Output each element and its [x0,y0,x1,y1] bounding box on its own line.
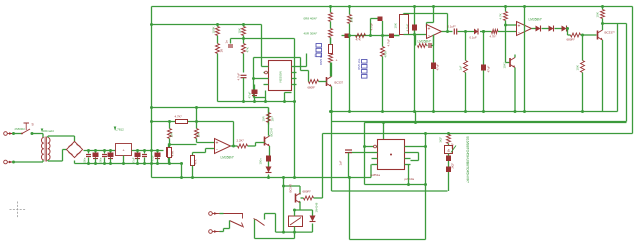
svg-text:1uF: 1uF [339,160,343,165]
wire y38 branch [231,38,295,40]
transistor Q1 BC337 [326,77,328,86]
wire box to cap [448,154,450,156]
svg-text:4.7K: 4.7K [171,151,175,157]
svg-text:47uF: 47uF [248,91,252,98]
wire Q2 collector up [602,24,604,31]
node after S1 [31,132,34,135]
node y122 x415 [414,121,417,124]
node x602 top [601,5,604,8]
svg-text:1K: 1K [220,49,224,53]
wire Q1 collector [331,63,333,77]
transformer TR1 core [44,137,46,162]
node C17 [109,149,112,152]
node x382 rail [381,110,384,113]
node x283 y185 [282,185,285,188]
capacitor C15 electrolytic [93,153,99,158]
IC3 left pins [372,146,378,148]
capacitor C1 100n [230,39,232,44]
diode D2 [549,26,554,32]
node R1 top [216,23,219,26]
node x349 top [348,5,351,8]
wire y121 left rail [152,121,234,123]
wire x403 pot top [403,14,405,15]
origin crosshair [10,202,26,218]
wire collector branch [284,185,301,187]
resistor R19 box right of caps [167,148,171,157]
svg-text:3K3*: 3K3* [439,137,443,143]
capacitor C16 [104,151,106,154]
node C16 top [103,149,106,152]
capacitor C18 electrolytic [135,153,141,158]
wire x382 lower with resistor [382,36,384,47]
wire x524 vertical [524,7,526,112]
node y101 x284 [283,100,286,103]
wire y238 bottom [255,238,295,240]
node x414 rail [413,110,416,113]
svg-text:10R: 10R [262,116,266,121]
voltage regulator IC2 7812 box [116,144,132,156]
node x330 top [329,5,332,8]
wire right outer vertical [632,7,634,134]
node y107 x151 [150,106,153,109]
resistor R24 out [238,144,248,148]
svg-text:L7812: L7812 [116,128,125,132]
transistor Q2 BC337 [597,31,599,40]
wire x349 lower [349,36,351,112]
node x483 [482,30,485,33]
resistor R22 box [168,148,172,158]
svg-text:200ma1h: 200ma1h [43,129,55,133]
wire Q4 emitter [269,146,271,156]
resistor R6 40R 30W [329,29,333,38]
node x151 supply [150,149,153,152]
wire secondary bottom to bridge [47,160,49,161]
node x253 pin3 [252,77,255,80]
svg-text:1N4148: 1N4148 [315,202,319,212]
wire Q3 collector stub [514,55,516,58]
wire x349 to y35 [349,24,351,36]
wire y239 bottom detour [350,239,426,241]
diode D1 [536,26,541,32]
wire C24 to C25 [448,161,450,167]
wire y23 jog [602,23,627,25]
node out1 [446,30,449,33]
svg-text:4.7uF: 4.7uF [370,23,374,31]
node y121 x196 [195,120,198,123]
wire y34 input line [404,34,427,36]
node x294 y231 [293,231,296,234]
node C15 top [94,149,97,152]
svg-text:S: S [32,123,34,127]
wire R23 to -in [196,139,198,143]
wire x196 drop [196,108,198,129]
wire U2B out [532,28,536,30]
wire x582 pulldown [582,35,584,61]
wire x370 up [370,19,372,36]
node C14 top [87,149,90,152]
node base x582 [581,34,584,37]
capacitor C23 [345,149,352,151]
svg-text:pc851a: pc851a [371,173,381,177]
op-amp U2B LM358N [517,22,532,36]
wire U1 right wrap upper [297,66,307,68]
wire y111 mid rail [332,111,618,113]
svg-text:4.7uF: 4.7uF [237,73,241,81]
wire x483 lower [483,32,485,65]
wire y238 riser [294,232,296,238]
wire primary top entry [42,134,44,138]
svg-text:47uF: 47uF [151,155,155,162]
wire y190 lower branch [332,190,448,192]
node x283 y231 [282,231,285,234]
resistor R7 box [329,45,333,54]
wire C22 to D4 [268,162,270,167]
svg-text:10K*: 10K* [503,62,507,69]
wire x284 wrap [285,92,292,94]
svg-text:10K: 10K [394,23,398,28]
svg-text:B16/B8TO45HU/B8TO45HVR*: B16/B8TO45HU/B8TO45HVR* [466,137,470,184]
svg-text:47uF: 47uF [436,63,440,70]
wire Q4 base jog [248,145,256,147]
svg-text:4.7K*: 4.7K* [175,115,183,119]
node x383 y122 [382,121,385,124]
IC3 optocoupler body [378,140,405,170]
wire y122 lower rail [365,122,627,124]
wire x294 lower [294,102,296,178]
svg-text:47K: 47K [356,38,361,42]
node x169 mid [168,143,171,146]
connector X2 pin1 [209,212,213,216]
wire x408 pin drop [408,165,410,185]
svg-text:10K: 10K [596,12,600,17]
wire R21 to node [169,139,171,148]
node y38/x243 [242,37,245,40]
svg-text:680R*: 680R* [308,86,317,90]
wire R26 to Q4 [268,123,270,136]
wire opamp out [442,31,453,33]
wire x330 from top rail [330,7,332,13]
wire x169 drop [169,122,171,129]
wire +in down [193,152,206,154]
wire X2 pin1 stub [220,213,224,215]
capacitor C2 4.7uF [241,74,247,76]
capacitor C8 on x414 [412,25,417,31]
svg-text:2.2K*: 2.2K* [237,139,245,143]
svg-text:NE555N: NE555N [279,71,283,82]
resistor R3 [243,25,245,27]
node y121 x169 [168,120,171,123]
U1 right pin stubs [292,66,297,68]
resistor R21 10K [168,129,172,139]
node x483 top [482,30,485,33]
potentiometer P1 box [400,15,409,35]
capacitor C9 on x433 lower [433,35,435,112]
svg-text:BC337: BC337 [335,81,344,85]
wire R7b down [330,63,332,77]
wire R28 to x322 [314,197,323,199]
capacitor C7 blocking [389,34,394,39]
wire y24 branch [152,24,262,26]
wire X1 pin2 to transformer [14,161,44,163]
op-amp U3A LM358N [215,139,231,154]
IC3 pin1 bubble [374,145,377,148]
wire y184 link [365,184,426,186]
wire S2 pivot down [229,221,231,229]
connector X2 pin2 [209,230,213,234]
svg-text:1W*: 1W* [271,115,275,121]
svg-text:pc510a: pc510a [405,177,415,181]
node y111 x514 [514,110,517,113]
wire right inner vertical [617,24,619,112]
wire to R13 [480,31,492,33]
wire relay bottom pin [294,227,296,233]
wire D4 to rail [268,175,270,178]
node x524 rail [523,110,526,113]
svg-text:0R8 40W*: 0R8 40W* [304,17,319,21]
resistor R25 under +in [192,154,194,156]
resistor R23 [195,129,199,139]
switch S1 [22,129,30,134]
node out x233 [232,145,235,148]
node R25 rail [191,176,194,179]
switch S3 blade [256,220,265,226]
node mid [464,30,467,33]
wire primary bottom entry [42,160,44,162]
svg-text:47K: 47K [246,47,250,52]
node C16 gnd [103,162,106,165]
resistor R8 base 680R [309,80,319,84]
svg-text:100n: 100n [259,158,263,165]
wire x322 drop to relay driver [322,134,324,199]
transformer TR1 secondary [48,138,50,144]
capacitor C24 [446,156,451,162]
diode D4 [266,167,272,173]
wire x261 drop to IC [261,25,263,67]
wire IC3 right wrap x425 [411,146,426,148]
node X1 pin2 [12,161,15,164]
node x582 rail [581,110,584,113]
node y177 x294 [293,176,296,179]
resistor R4 [242,44,246,54]
wire S3 contact up [264,214,266,220]
net flag column TST [362,60,368,64]
wire to base node [567,28,568,30]
wire R16 to base [581,34,597,36]
svg-text:BC547: BC547 [270,128,274,137]
wire U1 left wrap x253 [253,58,255,98]
node x268 rail [267,176,270,179]
transistor Q5 BC547 relay driver [295,194,297,203]
svg-text:TST GND: TST GND [357,59,361,70]
wire +in [206,148,215,150]
wire x169 node to -in [170,144,197,146]
bridge rectifier B1 [66,141,82,157]
resistor R20 feedback horizontal [176,120,188,124]
trimmer arrow [451,146,456,153]
wire x330 to rail [330,38,332,45]
wire bridge + output [84,150,116,152]
node x524 top [523,5,526,8]
wire x349 from top rail [349,7,351,15]
node x349 rail [348,110,351,113]
transistor Q4 BC547 [264,137,266,146]
node x425 y133 [424,132,427,135]
switch S2 blade [230,221,243,227]
U1 pin1 bubble [265,71,268,74]
wire right mid horizontal y121 [332,121,627,123]
U1 left pin stubs [264,66,269,68]
node R3 top [242,23,245,26]
wire S3 top link [265,213,276,215]
svg-text:4.7K*: 4.7K* [490,35,498,39]
wire S3 pivot column [254,220,256,239]
svg-text:470R: 470R [384,51,388,58]
node C14 gnd [87,162,90,165]
resistor R1 100K [217,25,219,27]
svg-text:47uF: 47uF [132,157,136,163]
svg-text:BC337*: BC337* [605,31,616,35]
IC U1 NE555 body [269,61,292,91]
node X1 pin1 [12,132,15,135]
wire X1 pin1 to S1 [14,133,23,135]
diode D3 [562,26,567,32]
node relay top [293,209,296,212]
wire emitter to relay/diode [295,209,313,211]
resistor R28 680R base [304,196,314,200]
resistor R15 4.7K [504,12,508,21]
node y101 x294 [293,100,296,103]
wire x433 from rail [433,7,435,23]
svg-text:100K: 100K [212,26,216,33]
wire x447 feedback drop [447,14,449,32]
svg-text:37K*: 37K* [451,143,455,149]
wire R6 down [330,38,332,45]
node x151 gnd rail [150,162,153,165]
wire Q3 emitter to rail [514,68,516,112]
wire S1 to transformer [31,133,44,135]
svg-text:2K2*: 2K2* [451,163,455,169]
wire y57 over IC [256,57,301,59]
node y184 x425 [424,183,427,186]
svg-text:BC547: BC547 [289,184,293,193]
svg-text:680R*: 680R* [567,38,576,42]
wire U3A out [231,145,238,147]
switch S2 pin path [224,214,243,219]
diode D0 [474,29,478,35]
node after diodes [566,27,569,30]
svg-text:10K: 10K [170,132,174,137]
svg-text:4.7uF: 4.7uF [387,39,391,47]
resistor R16 680R [571,33,581,37]
polarized capacitor C5 [345,34,350,39]
diode D5 flyback [312,210,314,216]
capacitor C13 47uF [481,65,486,71]
resistor R7b third [329,54,333,63]
transistor Q3 [509,58,511,67]
wire secondary top to bridge [47,136,49,138]
capacitor C3 47uF electrolytic [252,90,258,95]
node x331 y111 [330,110,333,113]
wire right mid vertical [626,24,628,122]
resistor R18 collector [602,7,604,10]
capacitor C6 4.7uF [378,17,383,22]
node x181 rail [180,176,183,179]
resistor R26 10R [268,108,270,113]
resistor R27 on x448 [447,135,451,144]
svg-text:10K: 10K [197,132,201,137]
svg-text:LM358N*: LM358N* [221,156,235,160]
wire X2 pin2 stub [220,231,224,233]
node x433 top [432,5,435,8]
svg-text:2N5001h: 2N5001h [15,127,26,131]
wire regulator gnd [123,156,125,164]
svg-text:10K: 10K [576,65,580,70]
trimmer box x448 [448,144,450,146]
node x414 top [413,5,416,8]
node y184 x408 [407,183,410,186]
node x349 y35 [348,34,351,37]
svg-text:680R*: 680R* [303,190,312,194]
wire Q5 emitter [299,202,301,211]
resistor R13 4.7K [492,30,499,34]
svg-text:100n: 100n [83,157,87,163]
node y133 x448 [447,132,450,135]
wire y133 relay-drive line [323,133,633,135]
node x425 y146 [424,145,427,148]
node Q2 collector [601,22,604,25]
resistor R2 [216,44,220,54]
node y107 x196 [195,106,198,109]
wire x403 pot bottom [403,34,405,36]
node y121 x151 [150,120,153,123]
wire Q1 emitter [331,87,333,112]
op-amp U2A LM358N [427,25,442,39]
svg-text:47uF: 47uF [487,65,491,72]
wire Q1 base route from U1 [308,71,310,82]
node x330 rail y111 [329,110,332,113]
wire y231 bottom link [276,231,313,233]
wire x331 long drop [331,112,333,192]
capacitor C25 [446,167,451,173]
wire R5-R6 [330,22,332,29]
capacitor C20 electrolytic [155,153,161,158]
wire x294 long vertical [294,39,296,102]
svg-text:4.7K: 4.7K [499,13,503,19]
wire IC3 right pin2 [411,152,419,154]
capacitor C14 [88,151,90,154]
wire y177 corner up to IC3 pin4 [370,165,372,178]
node y101 x243 [242,100,245,103]
svg-text:+: + [216,141,219,147]
wire x181 ground tie [181,164,183,178]
wire x349 down [349,178,351,240]
resistor R5 0R8 40W [329,13,333,22]
svg-text:100n: 100n [99,157,103,163]
capacitor C22 100n [266,156,271,162]
wire y13 feedback [404,13,448,15]
wire relay top pin [294,210,296,216]
wire feedback up x233 [233,122,235,147]
resistor R9 39K [348,15,352,24]
wire y101 under-IC rail [218,101,295,103]
node x151/y24 [150,23,153,26]
capacitor C11 1uF [453,29,455,35]
wire x505 to +in [505,21,507,26]
svg-text:0.1uF*: 0.1uF* [448,25,457,29]
svg-text:+: + [336,59,338,63]
node x465 rail [464,110,467,113]
svg-text:1n: 1n [225,40,229,44]
